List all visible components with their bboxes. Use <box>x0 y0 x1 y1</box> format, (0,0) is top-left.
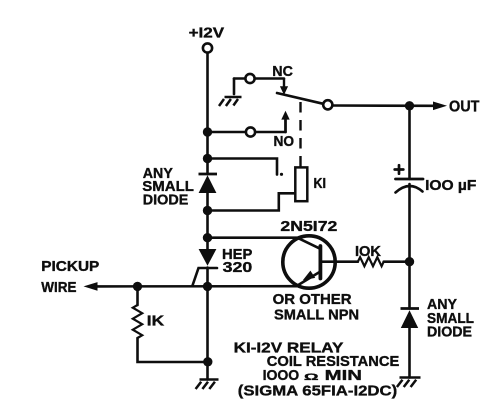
svg-text:2N5I72: 2N5I72 <box>280 219 337 235</box>
svg-text:IOOO: IOOO <box>263 368 300 384</box>
svg-text:WIRE: WIRE <box>41 280 76 296</box>
svg-text:IOO µF: IOO µF <box>425 178 477 194</box>
svg-text:OR OTHER: OR OTHER <box>273 292 353 308</box>
svg-text:NC: NC <box>272 64 293 80</box>
svg-text:(SIGMA 65FIA-I2DC): (SIGMA 65FIA-I2DC) <box>238 383 398 399</box>
svg-text:KI: KI <box>314 176 327 192</box>
svg-text:DIODE: DIODE <box>143 192 189 208</box>
svg-text:MIN: MIN <box>325 368 362 384</box>
svg-text:Ω: Ω <box>304 372 319 382</box>
svg-text:SMALL NPN: SMALL NPN <box>274 307 359 323</box>
svg-text:IK: IK <box>147 314 165 330</box>
svg-text:DIODE: DIODE <box>427 324 472 340</box>
svg-text:IOK: IOK <box>355 244 382 260</box>
svg-text:320: 320 <box>223 260 253 276</box>
svg-text:+I2V: +I2V <box>189 25 225 41</box>
svg-text:PICKUP: PICKUP <box>41 259 99 275</box>
svg-text:NO: NO <box>274 134 295 150</box>
svg-text:OUT: OUT <box>449 99 480 116</box>
